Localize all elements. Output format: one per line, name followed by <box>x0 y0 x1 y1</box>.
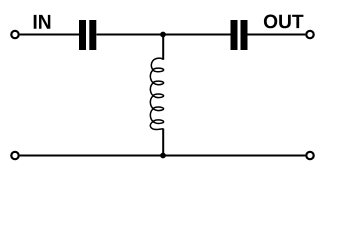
node junction dot (bottom) <box>160 153 166 159</box>
terminal (bottom-right) <box>306 152 313 159</box>
wire: node A down to inductor <box>162 35 164 60</box>
wire: C2 to OUT terminal <box>248 34 306 36</box>
wire: C1 to node A <box>97 34 164 36</box>
terminal OUT (top-right) <box>306 31 313 38</box>
wire: bottom rail <box>20 155 306 157</box>
label OUT <box>264 15 304 29</box>
capacitor C2 (left plate) <box>231 20 238 50</box>
capacitor C1 (right plate) <box>89 20 96 50</box>
node A junction dot (top) <box>160 32 166 38</box>
inductor L1 (coil) <box>150 58 163 129</box>
capacitor C2 (right plate) <box>241 20 248 50</box>
terminal IN (top-left) <box>11 31 18 38</box>
label IN <box>34 15 51 29</box>
terminal (bottom-left) <box>11 152 18 159</box>
capacitor C1 (left plate) <box>79 20 86 50</box>
wire: IN terminal to C1 <box>20 34 79 36</box>
wire: inductor to bottom junction <box>162 129 164 156</box>
wire: node A to C2 <box>163 34 231 36</box>
